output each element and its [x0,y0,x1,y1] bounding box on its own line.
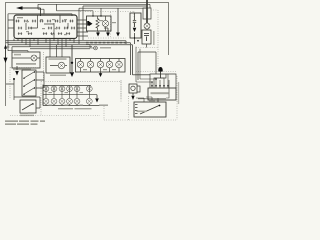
lamp L8 [116,59,123,73]
left web [8,30,62,57]
text [16,63,36,65]
arrow below lamp row [99,72,103,77]
text [13,69,31,71]
lamp G4 [67,86,73,92]
wire top y4.3 [38,3,150,5]
drops below control unit [150,100,158,102]
motor box [46,57,70,73]
dashed region left: top [10,67,40,69]
arrow down A1 [96,31,100,37]
bottom right box [134,102,166,117]
switch assembly box [22,70,36,96]
fusebox right exits [77,20,88,36]
wires to lamp TR [146,0,148,23]
wire staircase [38,4,44,14]
nested corners [150,74,176,88]
caption bottom left line1 [5,120,45,122]
lamp row box [76,59,126,73]
text below [20,115,34,117]
lamp G1 [43,86,49,92]
lamp G3 [59,86,65,92]
arrow down A3 [116,8,120,36]
wire y13.8 [8,14,72,30]
arrow down switch [15,66,19,76]
lamp L4 [77,59,84,73]
arrow in U2 [133,23,137,44]
top right box [143,5,151,20]
dashed boundary top [80,11,134,13]
switch S1 [23,71,35,79]
dotted h y71.5 [136,71,177,73]
lamp L2 top right [144,23,150,29]
dashed boundary bottom [88,37,126,39]
dotted grid region [41,82,121,116]
wire pair to top-right lamp [83,6,147,40]
control unit box [148,88,176,100]
feeder wires [136,47,164,82]
dotted bottom line [10,115,100,117]
fuse F5 [47,20,51,23]
lamp L7 [106,59,113,73]
fuse F8 [69,20,73,23]
fuse F3 [32,20,36,23]
junction dots [92,15,139,41]
tiny labels lamp row [20,20,116,114]
dotted L top right [151,10,158,70]
arrow up right [158,67,163,78]
component box U2 [130,13,141,38]
key switch component [129,84,140,93]
text above [49,58,67,60]
fuse F16 [28,32,32,35]
lamp G9 [59,98,65,104]
fuse F20 [66,32,70,35]
fuse F7 [62,20,66,23]
dotted bottom line 2 [104,76,177,120]
dashed boundary right [133,12,135,31]
wires bottom switch [14,97,40,108]
lamp L1 [102,16,108,31]
fuse F17 [43,32,47,35]
arrow below key [131,93,134,100]
lamp L6 [97,59,104,73]
dashed region left: side [9,68,11,99]
fuse F4 [39,20,43,23]
wire y10.8 [57,4,94,16]
dotted v x121 [120,80,122,102]
fuse F15 [18,32,22,35]
fuse F12 [56,27,60,30]
fuse F19 [58,32,62,35]
dashed boundary mid [110,12,112,38]
rotated margin text right [178,82,179,104]
lamp G10 [67,98,73,104]
resistor R1 [96,16,99,31]
fuse F18 [50,32,54,35]
lamp box left [12,52,40,68]
fuse F6 [54,20,58,23]
lamp G2 [51,86,57,92]
lamp G8 [51,98,57,104]
relay box U1 [87,16,112,31]
rotated text right of box [153,31,155,45]
lamp G6 [86,86,92,92]
dotted h y47.5 [136,47,158,49]
border frame [6,3,169,107]
caption bottom left line2 [5,123,38,125]
caption under grid [58,108,92,109]
hooks above box [136,80,169,102]
pins [135,105,138,114]
small lamp L9 [86,45,97,50]
fusebox wiring [26,15,68,38]
fuse F1 [15,20,19,23]
fuse F2 [24,20,28,23]
text in box [137,111,147,113]
lamp G12 [86,98,92,104]
switch S4 [22,103,34,110]
lamp grid buses [43,86,100,106]
switch S2 [23,79,35,87]
fuse in U2 [133,13,136,22]
lamp L5 [87,59,94,73]
fuse F13 [64,27,68,30]
wire pair lower [79,8,147,44]
marks in box under lamp TR [144,34,149,42]
wires to lamp grid [43,72,44,106]
arrow left of lamp row [70,45,74,77]
control unit pins [152,74,168,88]
fusebox left entries [8,20,14,28]
lamp grid verticals [46,86,89,106]
fuse F9 [18,27,22,30]
corners right of buses [126,41,133,75]
lamp L3 [12,55,40,61]
arrow grid right [95,95,99,103]
tiny labels scatter in fusebox [17,17,67,35]
box under lamp L2 [142,30,151,44]
box B1 right [138,52,156,80]
switch S5 [140,105,160,114]
bus drops from fusebox [18,39,74,49]
arrow left top [16,6,41,16]
fuse F11 [48,27,52,30]
motor M1 [50,62,67,69]
hatched strip [86,42,126,44]
text below [50,75,66,77]
switch wires [6,72,44,97]
lamp G5 [74,86,80,92]
bus lines middle [6,41,133,49]
dotted v right of lamp box [43,52,45,80]
lamp G11 [74,98,80,104]
fuse F14 [71,27,75,30]
gray bus right [133,74,151,76]
arrow down A2 [104,28,110,37]
double arrow left margin [4,45,10,63]
text [14,54,21,56]
dotted left of box [128,96,130,120]
connector K1 [87,21,92,26]
fuse F10 [28,27,32,30]
wire stub relay [100,8,102,16]
lamp G7 [43,98,49,104]
fuse box J1 [14,15,77,39]
bottom switch box [20,100,36,113]
switch S3 [23,87,35,95]
